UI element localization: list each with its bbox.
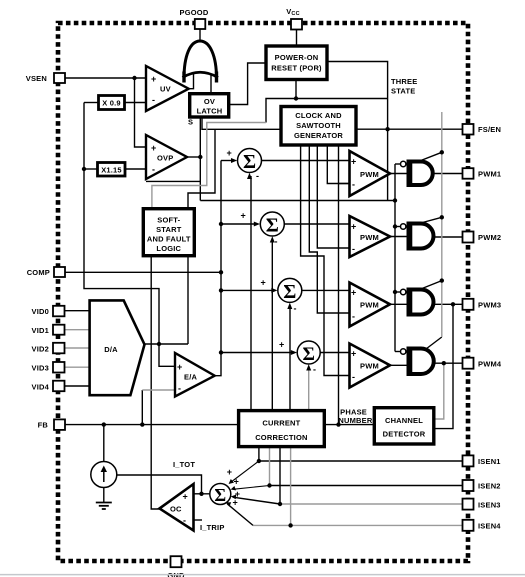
svg-text:-: -: [352, 180, 355, 190]
svg-text:DETECTOR: DETECTOR: [383, 430, 426, 439]
svg-text:-: -: [352, 244, 355, 254]
wire POR to soft-start gray part: [152, 123, 266, 209]
wire gate4 out to PWM4 pin: [433, 362, 463, 364]
svg-text:RESET (POR): RESET (POR): [271, 64, 322, 73]
wire gate2 out to PWM2 pin: [433, 236, 463, 238]
wire POR right / three-state: [327, 62, 388, 201]
wire ISEN3 diagonal to sigma5: [233, 497, 280, 504]
svg-text:-: -: [256, 171, 259, 181]
wire rail x84 down to E/A+ node: [84, 103, 175, 367]
summing node sigma1: [238, 149, 262, 174]
wire sigma3 minus from current correction: [289, 306, 291, 411]
svg-text:Σ: Σ: [214, 485, 226, 505]
wire OVP out S-rail down to enable line: [199, 117, 201, 201]
svg-text:FB: FB: [38, 421, 49, 430]
svg-text:OVP: OVP: [157, 154, 173, 163]
wire phase rail: [338, 145, 340, 425]
arrow into sigma1 left: [231, 158, 237, 163]
pin VID3: [53, 362, 65, 373]
svg-text:NUMBER: NUMBER: [338, 416, 372, 425]
svg-text:+: +: [227, 148, 232, 158]
arrow into sigma5 from ISEN2: [231, 486, 236, 490]
svg-text:PWM: PWM: [360, 233, 379, 242]
wire ISEN2 line: [270, 485, 463, 487]
arrow into sigma1 bottom: [247, 173, 252, 179]
node FB E/A: [140, 422, 144, 426]
summing node sigma4: [297, 341, 320, 365]
pin PWM3: [463, 299, 474, 310]
wire CC bottom 2 gray: [269, 447, 271, 486]
or gate: [183, 41, 219, 83]
comparator UV: [146, 66, 189, 111]
svg-text:Σ: Σ: [302, 344, 314, 365]
node PWM4 out tap: [442, 361, 446, 365]
wire clock bus PWM3 saw: [309, 145, 349, 313]
pin COMP: [54, 267, 65, 277]
wire sigma3 out to PWM3+: [302, 289, 349, 291]
gate4 bubble: [401, 349, 406, 354]
wire current source to ground: [103, 488, 105, 503]
node VSEN branch: [132, 76, 136, 80]
svg-text:I_TOT: I_TOT: [173, 460, 195, 469]
svg-text:OC: OC: [170, 505, 182, 514]
wire X1.15 left: [84, 168, 98, 170]
svg-text:+: +: [177, 362, 182, 372]
wire into bubble4: [395, 351, 400, 353]
wire switch diagonal gate4: [424, 337, 442, 351]
dashed border: [58, 23, 468, 561]
pwm comparator 4: [350, 344, 391, 388]
wire PWM3 apex to gate3: [390, 303, 408, 305]
arrow into sigma2 bottom: [270, 236, 275, 242]
wire three-state gray rail: [441, 112, 443, 337]
svg-text:+: +: [234, 476, 239, 486]
node enable gate3: [393, 290, 397, 294]
pin VID0: [53, 306, 65, 317]
wire FB to current source: [103, 425, 105, 462]
svg-text:+: +: [351, 349, 356, 359]
and gate 1: [409, 162, 433, 186]
node ISEN2: [267, 483, 271, 487]
svg-text:S: S: [188, 118, 193, 127]
wire VID2 stub: [65, 347, 90, 349]
node OVP out: [198, 155, 202, 159]
wire FB to E/A-: [141, 390, 143, 425]
node FB current source: [102, 422, 106, 426]
svg-text:-: -: [352, 372, 355, 382]
pwm comparator 2: [350, 216, 391, 257]
box SOFT-START AND FAULT LOGIC: [143, 209, 194, 256]
node enable gate2: [393, 224, 397, 228]
svg-text:PWM2: PWM2: [478, 233, 501, 242]
wire sigma4 out to PWM4+: [321, 352, 350, 354]
svg-text:SOFT-: SOFT-: [157, 216, 180, 225]
svg-text:CLOCK AND: CLOCK AND: [295, 111, 342, 120]
svg-text:+: +: [261, 278, 266, 288]
pin ISEN2: [463, 480, 474, 491]
svg-text:AND FAULT: AND FAULT: [147, 235, 191, 244]
svg-text:PWM3: PWM3: [478, 301, 501, 310]
arrow into sigma3 bottom: [287, 303, 292, 309]
wire sigma2 out to PWM2+: [285, 223, 350, 225]
svg-text:-: -: [183, 516, 186, 526]
wire PWM3 out to channel detector: [434, 304, 453, 428]
wire bubble column vertical: [394, 164, 396, 352]
svg-text:+: +: [233, 497, 238, 507]
wire sigma1 out to PWM1+: [262, 160, 350, 162]
svg-text:I_TRIP: I_TRIP: [200, 523, 225, 532]
wire phase branch to PWM1-: [339, 183, 350, 185]
svg-text:LOGIC: LOGIC: [156, 244, 181, 253]
svg-text:CHANNEL: CHANNEL: [385, 416, 423, 425]
pin PGOOD: [195, 19, 206, 29]
pin FB: [54, 419, 65, 430]
node ISEN3: [278, 502, 282, 506]
wire ISEN2 diagonal to sigma5: [233, 486, 270, 490]
pin VID1: [53, 325, 65, 335]
pin VID2: [53, 343, 65, 354]
arrow into sigma5 from ISEN4: [226, 502, 232, 506]
wire COMP to rail: [65, 271, 221, 273]
pin VCC: [291, 19, 302, 30]
wire clock bus PWM2 saw: [317, 145, 349, 248]
svg-text:ISEN1: ISEN1: [478, 457, 501, 466]
gate3 bubble: [401, 289, 406, 294]
pin VID4: [53, 381, 65, 392]
wire PWM1 apex to gate1: [390, 173, 408, 175]
node OC plus: [199, 492, 203, 496]
wire channel det gray from PWM4 out: [434, 363, 444, 419]
svg-text:PWM4: PWM4: [478, 360, 502, 369]
wire switch diagonal gate3: [417, 281, 442, 291]
wire E/A- gray feed: [142, 389, 175, 391]
arrow into sigma4 left: [291, 350, 297, 355]
node ISEN4: [288, 523, 292, 527]
svg-text:Σ: Σ: [243, 151, 256, 173]
wire ISEN4 line gray: [253, 524, 463, 526]
pwm comparator 1: [350, 151, 391, 196]
svg-text:START: START: [156, 225, 182, 234]
arrow into sigma2 left: [254, 222, 260, 227]
box OV LATCH: [190, 94, 229, 117]
svg-text:+: +: [183, 492, 188, 502]
wire sigma2 minus from current correction: [271, 240, 273, 411]
node switch1: [440, 150, 444, 154]
arrow into sigma3 left: [271, 288, 277, 293]
amplifier E/A: [175, 353, 215, 397]
pin ISEN1: [463, 455, 474, 466]
box CHANNEL DETECTOR: [374, 408, 434, 444]
svg-text:+: +: [279, 340, 284, 350]
node switch3: [440, 278, 444, 282]
wire switch diagonal gate2: [417, 217, 442, 224]
wire D/A out: [145, 343, 189, 345]
wire VSEN branch to OVP+: [135, 78, 147, 147]
svg-text:PWM: PWM: [360, 301, 379, 310]
svg-text:GENERATOR: GENERATOR: [294, 131, 343, 140]
wire OV latch to clock generator: [202, 117, 281, 129]
wire sigma1 minus from current correction: [250, 176, 252, 411]
arrow into sigma5 from ISEN1: [229, 479, 234, 484]
svg-text:-: -: [178, 384, 181, 394]
wire CC bottom 4 gray: [290, 447, 292, 526]
wire VID1 stub: [65, 329, 90, 331]
wire gate3 out to PWM3 pin: [433, 303, 463, 305]
wire CC bottom 1: [258, 447, 260, 461]
page artifact line: [0, 574, 525, 576]
wire PWM2 apex to gate2: [390, 236, 408, 238]
node D/A out: [157, 342, 161, 346]
node rail sigma3: [219, 288, 223, 292]
wire ISEN3 line gray: [280, 503, 463, 505]
svg-text:Σ: Σ: [266, 215, 279, 237]
summing node sigma2: [260, 212, 284, 237]
wire E/A apex to COMP rail: [215, 161, 221, 376]
wire X0.9 left to rail: [84, 102, 99, 104]
svg-text:STATE: STATE: [391, 87, 415, 96]
svg-text:X1.15: X1.15: [101, 166, 122, 175]
box POWER-ON RESET (POR): [266, 46, 327, 80]
wire into bubble2: [395, 226, 401, 228]
svg-text:POWER-ON: POWER-ON: [275, 53, 319, 62]
wire VID3 stub: [65, 366, 90, 368]
box X1.15: [98, 163, 126, 177]
svg-text:ISEN4: ISEN4: [478, 522, 501, 531]
svg-text:+: +: [151, 143, 156, 153]
pin PWM1: [463, 168, 474, 179]
svg-text:OV: OV: [204, 97, 215, 106]
svg-text:VID0: VID0: [32, 307, 49, 316]
svg-text:UV: UV: [160, 85, 171, 94]
wire soft-start left output: [151, 256, 159, 509]
node FS/EN tap: [385, 127, 389, 131]
svg-text:Σ: Σ: [283, 281, 296, 303]
pin FS/EN: [463, 124, 474, 135]
pin ISEN3: [463, 499, 474, 510]
comparator OC (points left): [160, 484, 194, 531]
node rail sigma2: [219, 222, 223, 226]
D/A converter: [90, 300, 145, 395]
summing node sigma5: [210, 484, 231, 505]
node ISEN1: [257, 459, 261, 463]
wire OR right input to OV latch: [210, 75, 212, 94]
wire VID4 stub: [65, 385, 90, 387]
wire sigma4 minus gray: [308, 368, 310, 411]
svg-text:PWM: PWM: [360, 170, 379, 179]
wire soft-start right output: [187, 256, 189, 344]
box X0.9: [99, 96, 125, 110]
pin ISEN4: [463, 520, 474, 531]
arrow into sigma5 from ISEN3: [231, 495, 237, 500]
svg-text:THREE: THREE: [391, 77, 417, 86]
svg-text:D/A: D/A: [104, 345, 118, 354]
wire ISEN1 line: [259, 460, 463, 462]
wire CC bottom 3: [279, 447, 281, 504]
wire ISEN4 diagonal to sigma5: [227, 504, 253, 526]
svg-text:+: +: [241, 211, 246, 221]
wire rail to sigma2: [221, 223, 258, 225]
svg-text:-: -: [352, 312, 355, 322]
wire VID0 stub: [65, 310, 90, 312]
wire rail to sigma4: [221, 352, 294, 354]
pin VSEN: [54, 73, 65, 83]
box CURRENT CORRECTION: [239, 411, 325, 447]
svg-text:PWM1: PWM1: [478, 170, 501, 179]
node PWM3 out tap: [451, 302, 455, 306]
wire stub left of S-rail: [146, 180, 200, 182]
svg-text:VSEN: VSEN: [26, 74, 47, 83]
wire CC right to channel detector / phase: [324, 424, 374, 426]
wire switch diagonal gate1: [417, 152, 442, 162]
svg-text:SAWTOOTH: SAWTOOTH: [296, 121, 341, 130]
wire X1.15 to OVP-: [125, 168, 146, 170]
wire ISEN1 diagonal to sigma5: [231, 461, 259, 483]
node switch2: [440, 215, 444, 219]
wire branch to soft-start right input: [188, 129, 215, 208]
pin PWM4: [463, 358, 474, 369]
current source: [91, 462, 117, 488]
svg-text:VID2: VID2: [32, 345, 49, 354]
svg-text:PWM: PWM: [360, 362, 379, 371]
wire PGOOD to OR gate: [199, 29, 201, 41]
svg-text:ISEN2: ISEN2: [478, 482, 501, 491]
wire OV latch to POR: [229, 63, 266, 105]
svg-text:+: +: [351, 288, 356, 298]
pwm comparator 3: [350, 283, 391, 327]
wire gate1 out to PWM1 pin: [433, 173, 463, 175]
comparator OVP: [146, 135, 187, 179]
svg-text:ISEN3: ISEN3: [478, 501, 501, 510]
svg-text:COMP: COMP: [27, 268, 50, 277]
node enable tap: [393, 198, 397, 202]
node phase: [336, 422, 340, 426]
summing node sigma3: [278, 278, 302, 303]
wire into bubble3: [395, 291, 400, 293]
pin GND: [171, 556, 182, 567]
and gate 2: [409, 224, 434, 249]
wire rail to sigma3: [221, 289, 275, 291]
node rail COMP: [219, 270, 223, 274]
wire current source out to OC+ node: [117, 475, 202, 494]
and gate 4: [409, 349, 434, 375]
wire into bubble1: [395, 163, 400, 165]
svg-text:PGOOD: PGOOD: [180, 8, 209, 17]
wire POR bottom to three-state rail: [296, 80, 388, 99]
wire X0.9 to UV-: [125, 102, 147, 104]
wire OC- stub: [194, 519, 203, 521]
svg-text:X 0.9: X 0.9: [102, 99, 121, 108]
wire UV out to OR input: [189, 74, 194, 89]
wire POR to soft-start (part black): [266, 99, 296, 123]
svg-text:E/A: E/A: [184, 373, 197, 382]
gate2 bubble: [401, 224, 406, 229]
wire clock bus PWM1 saw: [327, 145, 349, 184]
svg-text:-: -: [152, 95, 155, 105]
svg-text:VID1: VID1: [32, 326, 49, 335]
svg-text:FS/EN: FS/EN: [478, 125, 501, 134]
svg-text:-: -: [275, 237, 278, 247]
wire sigma5 out to OC+: [194, 493, 210, 495]
ground: [96, 503, 112, 510]
wire FB line: [65, 424, 239, 426]
pin PWM2: [463, 232, 474, 243]
svg-text:+: +: [151, 74, 156, 84]
wire clock bus PWM4 saw: [301, 145, 350, 376]
and gate 3: [409, 290, 434, 315]
wire VSEN to UV+: [65, 77, 146, 79]
node POR bottom: [294, 96, 298, 100]
wire rail to sigma1: [221, 160, 235, 162]
box CLOCK AND SAWTOOTH GENERATOR: [281, 107, 356, 146]
svg-text:-: -: [294, 304, 297, 314]
wire enable line to gate bubbles column: [200, 200, 395, 202]
node rail sigma4: [219, 350, 223, 354]
svg-text:LATCH: LATCH: [197, 107, 223, 116]
gate1 bubble: [401, 161, 406, 166]
svg-text:VID4: VID4: [32, 383, 50, 392]
wire FS/EN from clock: [356, 128, 463, 130]
svg-text:VID3: VID3: [32, 364, 49, 373]
wire OVP apex to S-rail: [187, 156, 200, 158]
svg-text:+: +: [351, 157, 356, 167]
svg-text:+: +: [351, 222, 356, 232]
svg-text:CORRECTION: CORRECTION: [255, 433, 307, 442]
node X rail: [82, 167, 86, 171]
svg-text:CURRENT: CURRENT: [262, 419, 300, 428]
wire VCC to POR: [296, 30, 298, 46]
wire PWM4 apex to gate4: [390, 364, 408, 366]
svg-text:-: -: [152, 165, 155, 175]
svg-text:-: -: [313, 365, 316, 375]
svg-text:+: +: [227, 467, 232, 477]
arrow into sigma4 bottom: [306, 364, 311, 370]
